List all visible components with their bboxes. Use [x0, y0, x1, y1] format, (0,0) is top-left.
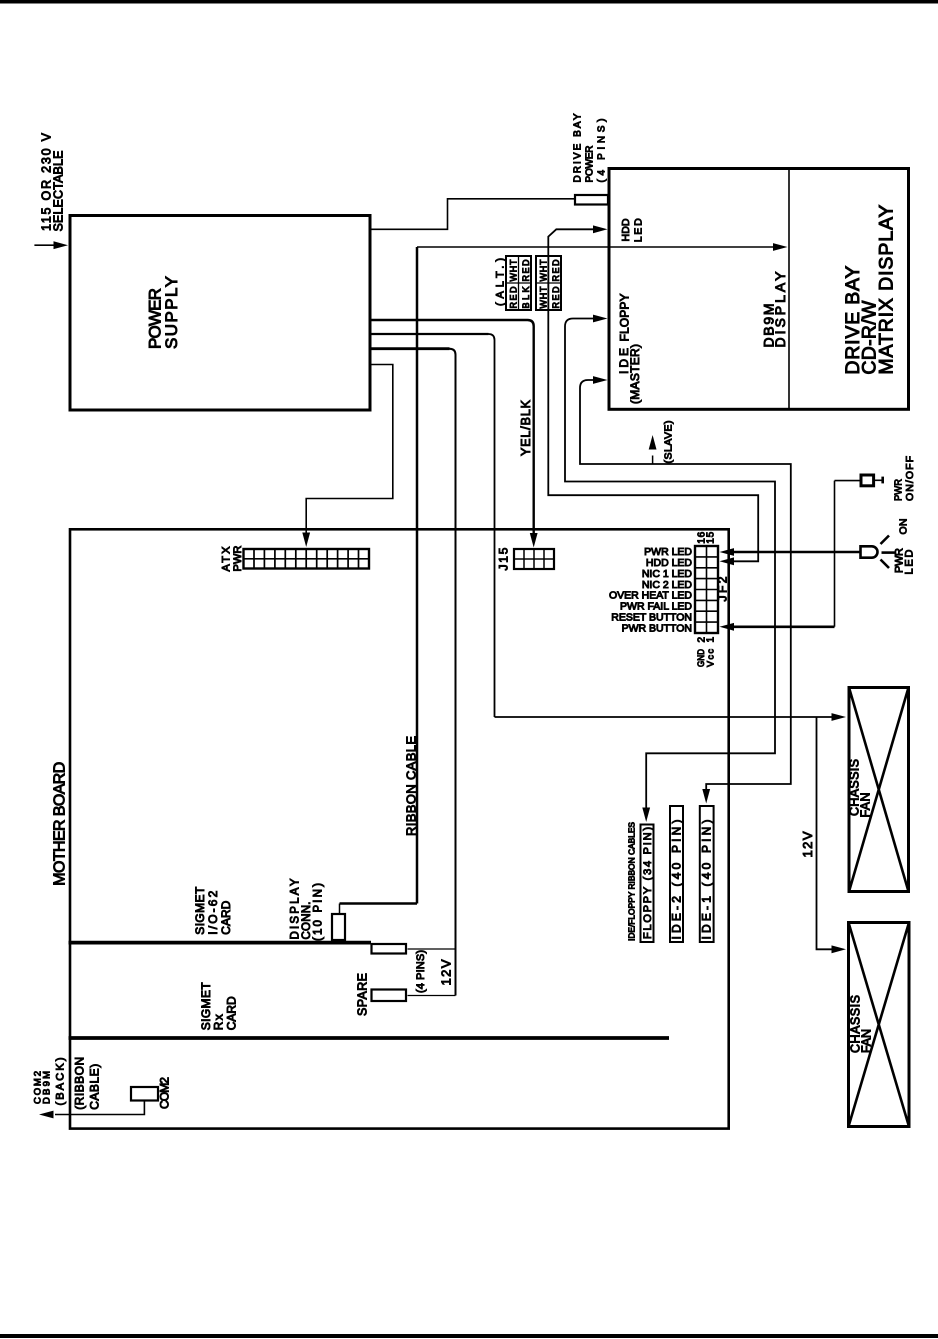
- label IDE (MASTER) in drive bay: [617, 344, 642, 404]
- svg-text:(RIBBON: (RIBBON: [73, 1057, 87, 1110]
- sigmet Rx card line: [69, 1036, 670, 1040]
- wire COM2 to back panel: [39, 1101, 144, 1118]
- connector 4 pins on card: [372, 944, 407, 954]
- svg-text:DB9M: DB9M: [42, 1071, 53, 1104]
- svg-text:RIBBON CABLE: RIBBON CABLE: [404, 736, 419, 836]
- connector J15: [514, 549, 554, 569]
- chassis fan lower: [849, 923, 910, 1127]
- label YEL/BLK: [519, 399, 533, 456]
- label DISPLAY CONN. (10 PIN): [290, 878, 325, 941]
- svg-text:BLK: BLK: [521, 287, 531, 309]
- svg-text:(10 PIN): (10 PIN): [313, 883, 325, 941]
- svg-text:PWR: PWR: [232, 545, 244, 571]
- label CHASSIS FAN upper: [848, 759, 873, 818]
- label 12V lower: [439, 959, 454, 985]
- label SPARE: [356, 973, 370, 1016]
- svg-text:I/O-62: I/O-62: [206, 890, 220, 934]
- svg-text:SUPPLY: SUPPLY: [162, 276, 181, 349]
- svg-text:ON/OFF: ON/OFF: [904, 456, 916, 501]
- svg-text:DISPLAY: DISPLAY: [290, 878, 302, 939]
- svg-text:DRIVE BAY: DRIVE BAY: [573, 113, 584, 182]
- svg-text:LED: LED: [904, 549, 916, 574]
- svg-text:ATX: ATX: [221, 546, 233, 572]
- label HDD LED: [620, 218, 645, 242]
- svg-text:IDE-1 (40 PIN): IDE-1 (40 PIN): [700, 820, 714, 940]
- label FLOPPY (34 PIN): [642, 827, 654, 939]
- svg-text:CABLE): CABLE): [88, 1064, 102, 1110]
- wire YEL/BLK power supply to J15: [371, 320, 538, 548]
- label 12V fan wire: [800, 831, 815, 857]
- label DRIVE BAY POWER (4 PINS): [573, 113, 608, 182]
- drive bay power connector: [575, 195, 608, 205]
- wire 12V power supply to chassis fans: [371, 334, 846, 953]
- svg-text:COM2: COM2: [158, 1077, 172, 1109]
- wire color tables frames: [506, 256, 561, 310]
- label COM2 DB9M (BACK): [33, 1058, 67, 1106]
- svg-text:RED: RED: [508, 286, 518, 309]
- labels JF2 pin functions: [609, 546, 692, 634]
- svg-text:FLOPPY: FLOPPY: [618, 294, 632, 342]
- chassis fan upper: [849, 688, 909, 892]
- label COM2 connector: [158, 1077, 172, 1109]
- label JF2: [716, 576, 730, 601]
- wire floppy drive bay to floppy ribbon: [565, 315, 775, 822]
- svg-text:YEL/BLK: YEL/BLK: [519, 399, 533, 456]
- svg-text:FLOPPY (34 PIN): FLOPPY (34 PIN): [642, 827, 654, 939]
- label ATX PWR: [221, 545, 245, 571]
- power supply label: [146, 276, 182, 349]
- svg-text:FAN: FAN: [860, 1029, 874, 1053]
- IDE-2 ribbon header box: [670, 806, 683, 942]
- connector COM2: [131, 1087, 158, 1101]
- svg-text:Vcc: Vcc: [706, 649, 716, 668]
- labels JF2 pins 16 15: [697, 531, 717, 543]
- label MOTHER BOARD: [52, 762, 69, 886]
- svg-text:CARD: CARD: [219, 900, 233, 934]
- label IDE/FLOPPY RIBBON CABLES: [627, 822, 637, 941]
- label (RIBBON CABLE): [73, 1057, 102, 1110]
- svg-text:SPARE: SPARE: [356, 973, 370, 1016]
- svg-text:HDD: HDD: [620, 218, 632, 241]
- label SIGMET I/O-62 CARD: [193, 886, 233, 935]
- wire ribbon cable to DB9M display: [340, 243, 788, 913]
- svg-text:POWER: POWER: [585, 146, 596, 183]
- power supply box: [70, 216, 370, 411]
- label ON: [898, 519, 910, 535]
- label PWR LED: [894, 548, 916, 575]
- svg-text:15: 15: [706, 531, 717, 543]
- label (SLAVE): [663, 421, 675, 464]
- svg-text:IDE-2 (40 PIN): IDE-2 (40 PIN): [670, 820, 684, 940]
- label DRIVE BAY CD-R/W MATRIX DISPLAY: [842, 205, 898, 375]
- IDE-1 ribbon header box: [700, 806, 714, 942]
- wire IDE master drive bay to IDE-1 ribbon: [580, 376, 791, 803]
- wire color table cell labels: [508, 259, 561, 309]
- svg-text:(4 PINS): (4 PINS): [597, 119, 608, 183]
- svg-text:CONN.: CONN.: [301, 902, 313, 940]
- display connector (10 pin): [332, 914, 345, 940]
- svg-text:MATRIX DISPLAY: MATRIX DISPLAY: [876, 205, 898, 375]
- svg-text:PWR: PWR: [893, 479, 905, 501]
- label IDE-1 (40 PIN): [700, 820, 714, 940]
- page bottom border rule: [0, 1334, 938, 1338]
- svg-text:WHT: WHT: [508, 259, 518, 282]
- svg-text:LED: LED: [633, 218, 645, 242]
- svg-text:GND: GND: [696, 649, 706, 667]
- slave stub arrow: [649, 435, 657, 464]
- PWR ON LED symbol: [861, 536, 895, 569]
- wire HDD LED: [548, 225, 758, 565]
- drive bay box: [609, 169, 909, 410]
- AC input arrow into power supply: [34, 241, 68, 249]
- svg-text:SIGMET: SIGMET: [193, 886, 207, 935]
- label IDE-2 (40 PIN): [670, 820, 684, 940]
- label J15: [497, 547, 511, 570]
- sigmet I/O-62 card line: [69, 941, 372, 945]
- svg-text:(MASTER): (MASTER): [628, 344, 642, 404]
- svg-text:SELECTABLE: SELECTABLE: [52, 151, 66, 232]
- svg-text:(BACK): (BACK): [55, 1058, 67, 1106]
- svg-text:RED: RED: [521, 259, 531, 282]
- connector JF2 header: [695, 546, 718, 633]
- svg-text:PWR BUTTON: PWR BUTTON: [622, 622, 692, 634]
- svg-text:(4 PINS): (4 PINS): [415, 950, 427, 993]
- svg-text:MOTHER BOARD: MOTHER BOARD: [52, 762, 69, 886]
- svg-text:RED: RED: [551, 259, 561, 282]
- svg-text:1: 1: [706, 637, 717, 643]
- svg-text:WHT: WHT: [538, 286, 548, 309]
- connector ATX PWR: [244, 549, 370, 569]
- page top border rule: [0, 0, 938, 4]
- wire JF2 to PWR ON/OFF switch: [720, 481, 860, 631]
- label (ALT.): [495, 258, 507, 306]
- label FLOPPY in drive bay: [618, 294, 632, 342]
- svg-text:(ALT.): (ALT.): [495, 258, 507, 306]
- svg-text:WHT: WHT: [538, 259, 548, 282]
- svg-text:Rx: Rx: [212, 1014, 226, 1030]
- svg-text:FAN: FAN: [859, 793, 873, 818]
- label PWR ON/OFF: [893, 456, 917, 501]
- svg-text:ON: ON: [898, 519, 910, 535]
- labels JF2 pins 2 1: [697, 637, 717, 643]
- svg-text:12V: 12V: [439, 959, 454, 985]
- mother board box: [70, 529, 729, 1128]
- label RIBBON CABLE: [404, 736, 419, 836]
- labels GND Vcc: [696, 649, 716, 668]
- svg-text:IDE/FLOPPY RIBBON CABLES: IDE/FLOPPY RIBBON CABLES: [627, 822, 637, 941]
- wire power supply to drive bay power: [371, 199, 574, 230]
- svg-text:(SLAVE): (SLAVE): [663, 421, 675, 464]
- label SIGMET Rx CARD: [199, 982, 239, 1031]
- wire power supply to ATX PWR: [302, 365, 393, 548]
- floppy ribbon header box: [641, 825, 654, 943]
- svg-text:J15: J15: [497, 547, 511, 570]
- wire 12V power supply to 4-pin connectors: [371, 349, 456, 996]
- label DB9M DISPLAY: [761, 271, 789, 348]
- label (4 PINS): [415, 950, 427, 993]
- connector SPARE: [372, 990, 407, 1002]
- svg-text:RED: RED: [551, 286, 561, 309]
- PWR ON/OFF switch symbol: [861, 475, 883, 486]
- svg-text:12V: 12V: [800, 831, 815, 857]
- label CHASSIS FAN lower: [849, 995, 874, 1053]
- label 115 OR 230 V SELECTABLE: [40, 132, 66, 231]
- wire JF2 to PWR ON LED: [720, 548, 860, 556]
- drive bay internal divider: [788, 170, 790, 408]
- svg-text:JF2: JF2: [716, 576, 730, 601]
- svg-text:CARD: CARD: [225, 996, 239, 1030]
